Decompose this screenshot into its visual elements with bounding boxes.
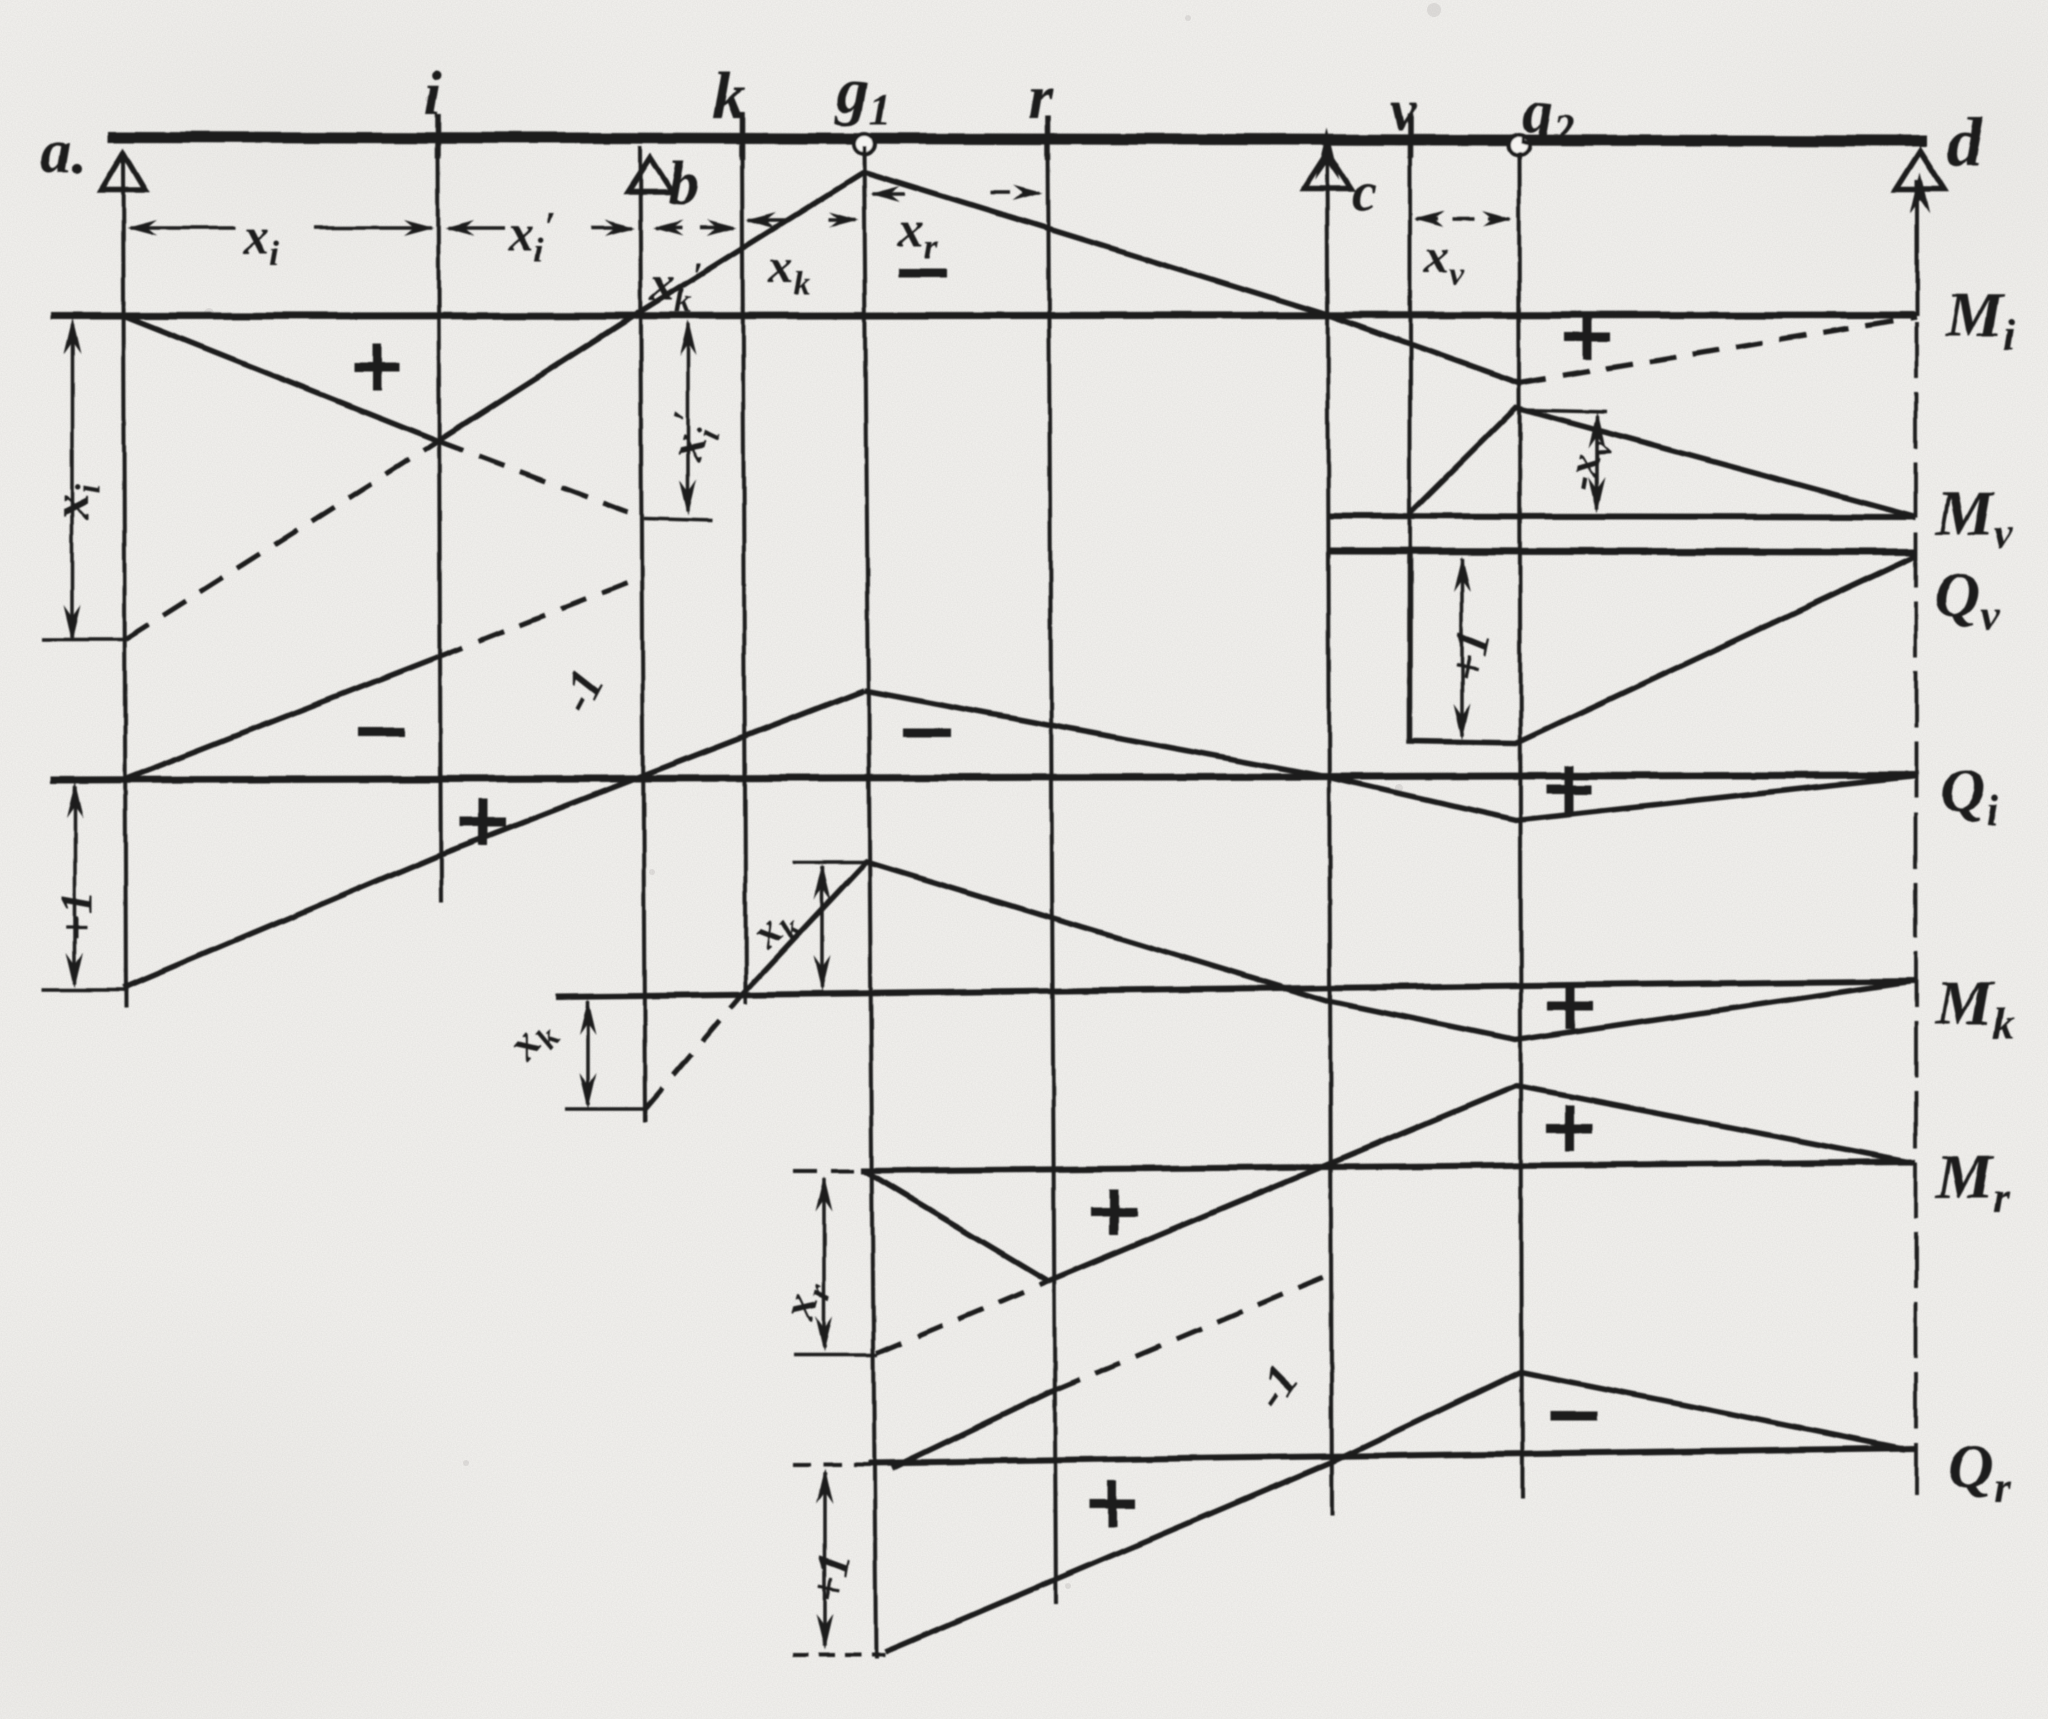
support a (pin triangle)	[101, 153, 145, 190]
Q_r upper branch solid g1..r	[892, 1390, 1055, 1468]
svg-text:v: v	[1390, 78, 1417, 143]
M_r influence line r-g2-d	[1048, 1086, 1908, 1281]
dim -x_v (at g2)	[1519, 410, 1607, 513]
node k label	[712, 57, 746, 133]
plus sign (Q_i near g2)	[1546, 766, 1592, 812]
plus sign (Q_r g1..c)	[1089, 1481, 1135, 1527]
M_r influence line g1-r	[866, 1172, 1048, 1281]
label M_r	[1935, 1141, 2011, 1222]
svg-text:b: b	[668, 150, 699, 218]
support d (pin triangle + reaction arrow)	[1896, 151, 1944, 189]
dim x_r vertical (at g1 column)	[793, 1176, 878, 1355]
svg-text:k: k	[712, 57, 746, 133]
column c (shaft of reaction arrow)	[1327, 150, 1332, 1516]
M_k influence line k-g1-c-g2-d	[742, 862, 1910, 1040]
svg-text:r: r	[1028, 64, 1053, 132]
M_i influence line b-g1-c-g2	[640, 172, 1519, 383]
dim +1 (Q_i left)	[42, 782, 128, 990]
dim +1 (Q_v)	[1454, 556, 1471, 740]
Q_i negative branch a-i	[123, 657, 438, 780]
hinge g1 (circle on beam)	[854, 134, 874, 154]
node a label	[40, 118, 87, 186]
dim x_k' (b..k)	[653, 220, 737, 236]
Q_r baseline	[868, 1448, 1916, 1463]
label Q_r	[1948, 1431, 2012, 1512]
Q_i baseline	[50, 775, 1916, 780]
column v	[1408, 146, 1412, 743]
Q_r baseline dashed left part	[793, 1462, 868, 1466]
M_i dashed g2-d	[1519, 317, 1916, 383]
node v label	[1390, 78, 1417, 143]
node r label	[1028, 64, 1053, 132]
label M_i	[1945, 279, 2016, 360]
column g2	[1519, 152, 1522, 1499]
node d label	[1946, 102, 1983, 182]
plus sign (M_r g1..c)	[1091, 1189, 1137, 1235]
svg-text:i: i	[424, 60, 441, 128]
node c label	[1352, 161, 1377, 223]
column d lower (dashed)	[1914, 322, 1918, 1494]
dim x_i vertical (left, at a)	[42, 318, 126, 641]
beam a-d (top chord line)	[108, 137, 1926, 141]
hinge g2 label	[1520, 78, 1574, 154]
node i label	[424, 60, 441, 128]
M_r baseline dashed left part	[793, 1169, 862, 1173]
M_i baseline	[50, 315, 1916, 316]
column k	[742, 146, 746, 1004]
svg-text:+1: +1	[51, 891, 102, 940]
dim x_k (at b column, below baseline)	[565, 999, 646, 1109]
plus sign (M_k near g2)	[1547, 983, 1593, 1029]
plus sign (M_i near g2)	[1564, 314, 1610, 360]
plus sign (M_r near g2)	[1547, 1105, 1593, 1151]
svg-text:a.: a.	[40, 118, 87, 186]
M_r baseline	[862, 1162, 1916, 1171]
label M_v	[1935, 477, 2013, 558]
M_k dashed extension g1-k to b column	[645, 995, 742, 1109]
Q_r negative triangle c-g2-d	[1332, 1372, 1905, 1462]
dim x_i' (i..b)	[445, 220, 635, 236]
Q_r upper branch dashed r..c (-1)	[1055, 1277, 1324, 1390]
dim x_k (k..g1)	[746, 212, 859, 228]
M_i influence line a-i-b	[123, 312, 640, 441]
minus sign (M_i negative zone)	[899, 269, 947, 278]
label Q_v	[1934, 559, 2000, 640]
node r tick	[1045, 116, 1051, 160]
Q_r bottom tick dashed	[793, 1653, 885, 1657]
minus sign (Q_i span ab)	[357, 728, 405, 737]
column r	[1048, 146, 1056, 1604]
M_i dashed extension b-i to a column	[126, 441, 438, 639]
column i	[438, 152, 441, 903]
plus sign (Q_i below)	[460, 799, 506, 845]
svg-text:c: c	[1352, 161, 1377, 223]
node v tick	[1407, 114, 1413, 158]
svg-text:d: d	[1946, 102, 1983, 182]
label -1 (Q_i dashed)	[549, 661, 615, 721]
dim x_k (at g1 peak)	[793, 862, 864, 992]
column d upper (reaction shaft)	[1915, 180, 1919, 316]
label -1 (Q_r dashed)	[1244, 1355, 1310, 1418]
dim x_i' vertical (at b column)	[644, 320, 712, 521]
Q_r lower branch g1..c	[885, 1462, 1332, 1652]
Q_v influence rectangle v-g2 and recovery to d	[1410, 553, 1916, 743]
Q_i positive branch from a bottom through i to g1 peak	[123, 690, 864, 988]
Q_i dashed extension i to b column (-1)	[438, 578, 640, 657]
column a	[123, 153, 126, 1008]
label Q_i	[1940, 755, 1999, 836]
support c (triangle + reaction arrow)	[1303, 152, 1351, 189]
dim +1 (Q_r left)	[817, 1468, 834, 1650]
M_k baseline	[556, 981, 1916, 997]
column g1	[864, 146, 876, 1659]
dim x_i (a..i)	[127, 220, 434, 236]
M_v influence line v-g2-d	[1410, 408, 1916, 517]
support b (pin triangle)	[628, 158, 672, 192]
M_v baseline	[1327, 516, 1916, 517]
column b	[640, 146, 645, 1122]
hinge g2 (circle on beam)	[1509, 135, 1529, 155]
minus sign (Q_i b..c)	[903, 729, 951, 738]
node i tick	[435, 114, 441, 158]
hinge g1 label	[834, 54, 891, 134]
dim x_v (v..g2)	[1414, 211, 1512, 227]
label M_k	[1935, 967, 2015, 1048]
Q_v baseline	[1327, 551, 1916, 552]
dim x_r (g1..r)	[870, 185, 1043, 202]
Q_i line g1-c-g2-d	[864, 690, 1916, 820]
node b label	[668, 150, 699, 218]
minus sign (Q_r c..d)	[1550, 1412, 1598, 1421]
plus sign (M_i span ab)	[354, 344, 400, 390]
svg-text:+1: +1	[1439, 625, 1502, 686]
node k tick	[739, 112, 745, 160]
M_r dashed extension r to g1 column	[877, 1281, 1048, 1353]
svg-text:+1: +1	[802, 1548, 861, 1605]
M_i dashed extension a-i to b column	[438, 441, 640, 517]
